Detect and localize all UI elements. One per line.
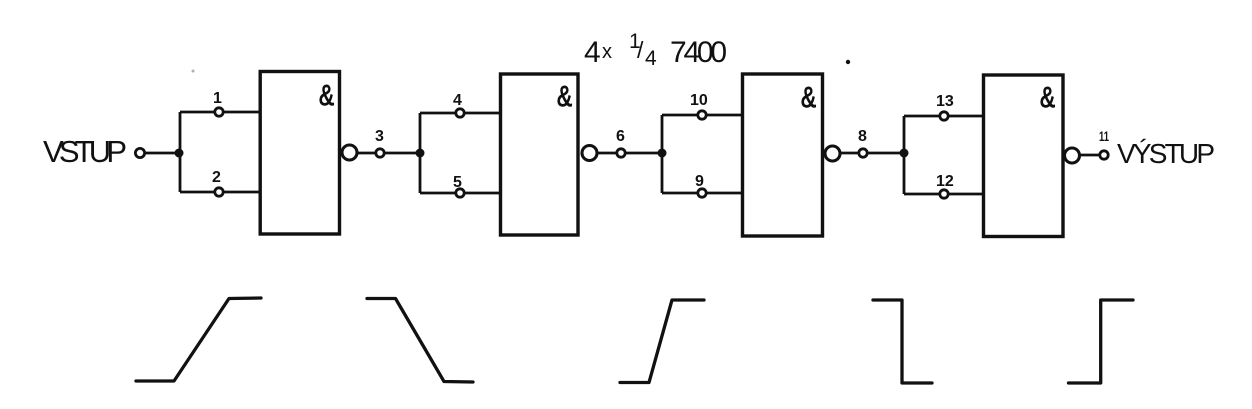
NAND gate U1B (501, 74, 598, 235)
NAND gate U1D (984, 75, 1080, 237)
NAND gate U1A (260, 72, 357, 235)
wire pin1 to gate1 (224, 111, 261, 114)
svg-text:VÝSTUP: VÝSTUP (1117, 138, 1215, 169)
pin 4 (456, 109, 464, 117)
wire bubble to pin 11 (1080, 154, 1099, 157)
svg-text:8: 8 (858, 128, 867, 145)
waveform sharp rising edge (output) (1069, 300, 1134, 383)
pin 6 (617, 149, 625, 157)
pin 5 (456, 189, 464, 197)
wire bubble to pin 6 (597, 152, 616, 155)
svg-text:13: 13 (936, 93, 954, 110)
pin 3 (376, 149, 384, 157)
svg-text:/: / (637, 37, 644, 63)
junction node at gate 1 inputs (175, 149, 184, 158)
wire to pin 12 (904, 193, 939, 196)
wire vertical branch gate2 (419, 113, 422, 193)
wire to pin 10 (662, 114, 697, 117)
wire pin4 to gate2 (465, 112, 501, 115)
svg-text:3: 3 (375, 128, 384, 145)
pin 8 (859, 149, 867, 157)
wire vertical branch gate3 (661, 115, 664, 193)
waveform slow falling ramp (after gate 1) (367, 299, 473, 383)
junction node at gate 4 inputs (900, 149, 909, 158)
svg-text:9: 9 (695, 173, 704, 190)
wire vertical branch gate4 (903, 116, 906, 194)
waveform slow rising ramp (input) (136, 298, 261, 381)
wire bubble to pin 8 (840, 152, 858, 155)
inverter bubble U1D output (1065, 148, 1080, 163)
wire pin13 to gate4 (949, 115, 984, 118)
ink speck (192, 70, 195, 73)
wire to pin 2 (180, 191, 214, 194)
value label 4x 1/4 7400 (584, 30, 727, 70)
wire pin5 to gate2 (465, 192, 501, 195)
wire vertical branch gate1 (179, 112, 182, 192)
svg-text:&: & (319, 80, 334, 112)
ink speck (846, 60, 850, 64)
junction node at gate 2 inputs (416, 149, 425, 158)
inverter bubble U1B output (582, 146, 597, 161)
wire pin12 to gate4 (949, 193, 984, 196)
wire to pin 9 (662, 192, 697, 195)
svg-text:4: 4 (453, 92, 462, 109)
svg-text:4: 4 (645, 47, 657, 70)
wire input to junction (145, 152, 180, 155)
inverter bubble U1A output (342, 145, 357, 160)
svg-text:7400: 7400 (670, 36, 727, 69)
pin 13 (940, 112, 948, 120)
wire pin6 to junction (626, 152, 663, 155)
wire pin10 to gate3 (707, 114, 743, 117)
pin 10 (698, 111, 706, 119)
wire pin2 to gate1 (224, 191, 261, 194)
svg-text:&: & (557, 81, 572, 113)
wire pin9 to gate3 (707, 192, 743, 195)
svg-text:11: 11 (1099, 128, 1109, 144)
svg-text:5: 5 (453, 174, 462, 191)
wire pin3 to junction (385, 152, 421, 155)
pin 9 (698, 189, 706, 197)
svg-text:x: x (602, 41, 612, 63)
svg-text:1: 1 (213, 90, 222, 107)
svg-text:6: 6 (616, 128, 625, 145)
wire to pin 4 (420, 112, 455, 115)
waveform steep rising ramp (after gate 2) (620, 300, 704, 383)
wire to pin 1 (180, 111, 214, 114)
wire bubble to pin 3 (357, 152, 375, 155)
svg-text:&: & (1040, 82, 1055, 114)
wire to pin 5 (420, 192, 455, 195)
waveform sharp falling edge (after gate 3) (873, 300, 932, 383)
wire pin8 to junction (868, 152, 905, 155)
pin 1 (215, 108, 223, 116)
pin 12 (940, 190, 948, 198)
NAND gate U1C (743, 74, 841, 236)
pin 2 (215, 188, 223, 196)
wire to pin 13 (904, 115, 939, 118)
svg-text:10: 10 (690, 92, 708, 109)
junction node at gate 3 inputs (658, 149, 667, 158)
svg-text:&: & (801, 82, 816, 114)
node VSTUP (input terminal) (43, 134, 145, 169)
svg-text:VSTUP: VSTUP (43, 134, 127, 169)
pin 11 (1100, 151, 1108, 159)
svg-text:2: 2 (212, 169, 221, 186)
inverter bubble U1C output (825, 146, 840, 161)
svg-text:12: 12 (936, 173, 954, 190)
svg-text:4: 4 (584, 36, 601, 69)
